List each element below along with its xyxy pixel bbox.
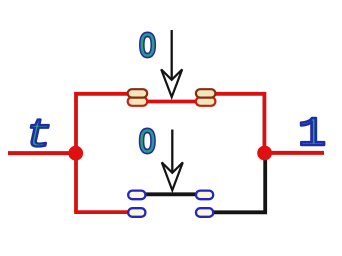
label 1 (output value) — [298, 112, 327, 158]
label t (input net) — [25, 113, 52, 158]
control arrow top: shaft — [171, 30, 173, 79]
wire: bottom middle segment (black) — [146, 192, 197, 196]
wire: left input stub (red, node t) — [8, 151, 70, 155]
node t junction (red dot) — [68, 146, 83, 161]
contact S1a closed: top pill (dark red outline) — [128, 89, 148, 97]
wire: left vertical + top-left horizontal (red) — [76, 94, 129, 212]
wire: bottom-right horizontal + right vertical lower (black) — [214, 158, 266, 212]
svg-text:0: 0 — [139, 27, 155, 64]
contact S2a closed: bottom pill (red outline) — [196, 97, 216, 106]
control arrow bottom: open head — [162, 162, 183, 190]
node 1 junction (red dot) — [257, 146, 272, 161]
svg-text:t: t — [25, 113, 52, 158]
label 0 (bottom control value) — [139, 123, 155, 160]
contact S2b open: upper pill (blue outline) — [196, 191, 213, 200]
contact S2a closed: top pill (dark red outline) — [196, 89, 216, 97]
wire: top middle segment (red) — [146, 100, 197, 104]
svg-text:0: 0 — [139, 123, 155, 160]
contact S1b open: lower pill (blue outline) — [128, 208, 145, 217]
contact S1b open: upper pill (blue outline) — [128, 191, 145, 200]
wire: right output stub (red, node 1) — [265, 151, 324, 155]
control arrow top: open head — [161, 69, 182, 97]
contact S2b open: lower pill (blue outline) — [196, 208, 213, 217]
wire: top-right horizontal + right vertical upper (red) — [215, 94, 265, 152]
wire: bottom-left horizontal (red) — [74, 210, 129, 214]
svg-text:1: 1 — [298, 112, 327, 158]
contact S1a closed: bottom pill (red outline) — [128, 97, 148, 106]
label 0 (top control value) — [139, 27, 155, 64]
control arrow bottom: shaft — [171, 130, 173, 173]
